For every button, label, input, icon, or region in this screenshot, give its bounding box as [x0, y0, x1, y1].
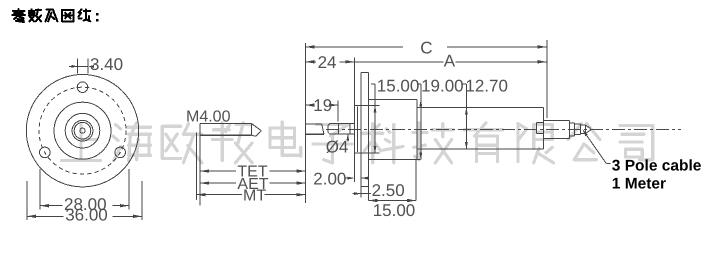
dimension 3.40 line and arrows	[69, 65, 94, 68]
flange plate side view	[361, 72, 368, 186]
M4 stud detail body	[200, 124, 252, 136]
dimension 3.40 label	[90, 55, 123, 74]
right extension line C-A	[546, 40, 548, 118]
dimension 3.40 extension lines	[77, 59, 88, 74]
svg-text:36.00: 36.00	[65, 206, 108, 225]
cable callout leader	[583, 130, 611, 164]
dimension 2.00 label	[313, 169, 346, 188]
dimension 24 label	[318, 53, 337, 72]
svg-text:12.70: 12.70	[465, 76, 508, 95]
label M4.00	[186, 108, 231, 125]
datum extension line at hub face	[353, 58, 355, 183]
svg-text:A: A	[444, 52, 456, 71]
watermark 上海欧牧电子科技有限公司 (approximated glyph strokes)	[62, 122, 653, 163]
dimension 36.00 line	[27, 215, 142, 218]
svg-text:C: C	[420, 39, 432, 58]
dimension 19 line	[305, 103, 337, 106]
M4 stud detail pointed tip	[252, 124, 262, 137]
svg-text:1 Meter: 1 Meter	[612, 176, 666, 193]
dimension 12.70 label	[465, 76, 508, 95]
bolt circle (28mm, dashed)	[39, 87, 126, 174]
dimension AET line	[200, 181, 305, 184]
dimension 24 line	[305, 60, 354, 63]
center hole	[80, 128, 85, 133]
label 3 Pole cable	[612, 158, 702, 175]
dimension 19.00 label	[421, 76, 464, 95]
left datum extension line	[304, 43, 306, 203]
dimension 28.00 label	[64, 195, 107, 214]
dimension 15.00 hook	[371, 84, 377, 153]
svg-text:3.40: 3.40	[90, 55, 123, 74]
dimension 15.00 bottom label	[373, 201, 416, 220]
shaft (diam 4)	[328, 124, 354, 135]
shaft circle outer	[72, 120, 93, 141]
dimension C line	[305, 45, 546, 48]
body sections 2 and 3 (12.7mm diameter)	[417, 108, 544, 149]
svg-text:15.00: 15.00	[373, 201, 416, 220]
svg-text:19: 19	[313, 96, 332, 115]
svg-text:Ø4: Ø4	[326, 138, 349, 157]
connector body	[544, 120, 570, 138]
bolt hole lower-right	[115, 147, 126, 158]
dimension 19.00 hook	[417, 84, 423, 159]
dimension TET label	[237, 164, 267, 181]
connector tip nut	[581, 125, 586, 133]
label 1 Meter	[612, 176, 666, 193]
dimension A line	[345, 60, 546, 63]
stud detail second extension line	[196, 133, 198, 201]
title 参数及图纸: (approximated glyph strokes)	[12, 9, 98, 22]
dimension TET line	[200, 169, 305, 172]
dimension 19 label	[313, 96, 332, 115]
dimension 28.00 line	[40, 204, 129, 207]
dimension 19 right extension line	[337, 101, 339, 122]
body section 1 (19mm diameter)	[369, 100, 421, 160]
svg-text:15.00: 15.00	[377, 76, 420, 95]
dimension 2.00 opposite arrow	[361, 177, 368, 180]
svg-text:MT: MT	[243, 188, 266, 205]
dimension 2.00 leader	[345, 177, 355, 180]
lower extension lines of section 1	[369, 159, 416, 200]
dimension AET label	[237, 176, 268, 193]
hub extension lines through flange	[361, 106, 379, 153]
dimension 12.70 hook	[462, 84, 468, 149]
svg-text:2.50: 2.50	[372, 181, 405, 200]
hub stub	[354, 106, 361, 153]
dimension 15.00 top label	[377, 76, 420, 95]
svg-text:24: 24	[318, 53, 337, 72]
connector inner rectangle	[537, 123, 544, 134]
section division line	[465, 108, 467, 149]
dimension 36.00 extension lines	[27, 181, 142, 220]
label diameter 4	[326, 138, 349, 157]
connector cone	[585, 125, 590, 133]
dimension MT line	[197, 193, 306, 196]
dimension C label	[420, 39, 432, 58]
bolt hole lower-left	[40, 147, 51, 158]
svg-text:3 Pole cable: 3 Pole cable	[612, 158, 702, 175]
flange front view outer circle (36mm)	[26, 75, 138, 187]
dimension 2.50 label	[372, 181, 405, 200]
boss circle outer	[54, 102, 111, 159]
dimension 28.00 extension lines	[40, 169, 129, 210]
svg-text:19.00: 19.00	[421, 76, 464, 95]
dimension 15.00 bottom line	[369, 199, 416, 202]
M4 stud main view	[305, 124, 324, 134]
dimension MT label	[243, 188, 266, 205]
dimension 36.00 label	[65, 206, 108, 225]
svg-text:2.00: 2.00	[313, 169, 346, 188]
shaft circle inner	[74, 122, 91, 139]
bolt hole top (3.40)	[77, 82, 88, 93]
dimension A label	[444, 52, 456, 71]
label diameter 4 leader	[346, 134, 349, 141]
stud detail left extension line	[199, 124, 201, 206]
flange edges extended below	[361, 186, 368, 197]
dimension 2.50 leader	[353, 192, 372, 195]
connector step 2	[570, 123, 575, 136]
boss circle inner	[65, 113, 100, 148]
svg-text:M4.00: M4.00	[186, 108, 231, 125]
connector step 3	[575, 124, 581, 135]
centerline axis	[326, 128, 681, 130]
